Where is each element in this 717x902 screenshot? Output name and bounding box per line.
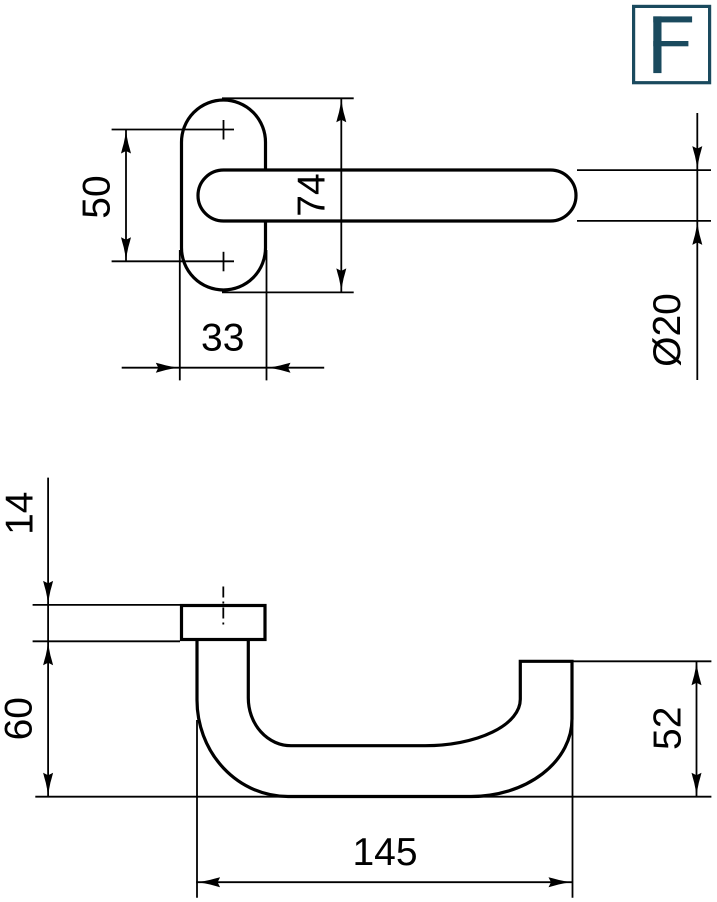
hub centerline (dash-dot) [222, 587, 224, 629]
svg-text:74: 74 [291, 173, 334, 216]
svg-text:14: 14 [0, 492, 42, 535]
center mark lower (vertical tick) [223, 252, 225, 271]
dimension line 50 [125, 130, 127, 262]
arrow 60 bottom (points down) [43, 773, 53, 797]
arrow 14/60 shared (below bar, points up) [43, 641, 53, 665]
letter F top bar [653, 16, 692, 22]
arrow diameter20 upper (above line, points down) [692, 146, 702, 170]
extension line 14 bottom [33, 640, 180, 642]
arrow 52 top (points up) [692, 661, 702, 685]
extension line 145 left [196, 720, 198, 898]
dimension line diameter 20 [696, 113, 698, 380]
arrow 52 bottom (points down) [692, 773, 702, 797]
rosette outline (oval plate) [182, 100, 266, 290]
baseline extension (grip underside) [35, 796, 711, 798]
arrow 74 bottom [336, 268, 346, 292]
extension line 52 top [572, 660, 711, 662]
lever grip outline (U-shape side view) [197, 641, 572, 797]
arrow 33 left (outside, points right) [156, 363, 180, 373]
dimension line 145 [196, 881, 572, 883]
dimension line 14/60 (left, shared) [47, 478, 49, 797]
arrow 14 upper (above line, points down) [43, 581, 53, 605]
logo box F [634, 6, 710, 82]
arrow 33 right (outside, points left) [267, 363, 291, 373]
svg-text:145: 145 [352, 831, 417, 874]
dimension line 74 [340, 98, 342, 292]
extension line 145 right [572, 720, 574, 898]
arrow 50 top [121, 130, 131, 154]
svg-text:33: 33 [201, 317, 244, 360]
svg-text:50: 50 [76, 175, 119, 218]
letter F middle bar [653, 41, 688, 46]
arrow diameter20 lower (below line, points up) [692, 221, 702, 245]
extension line 74 bottom [222, 291, 354, 293]
extension line 14 top [33, 604, 180, 606]
letter F stem [653, 16, 661, 73]
lever bar (top view, stadium shape) [198, 170, 576, 221]
extension line diameter 20 bottom [577, 220, 711, 222]
dimension line 52 [696, 661, 698, 796]
svg-text:52: 52 [646, 707, 689, 750]
extension line 50 top (through upper screw center mark) [112, 129, 234, 131]
svg-text:60: 60 [0, 697, 41, 740]
arrow 50 bottom [121, 237, 131, 261]
extension line diameter 20 top [577, 169, 711, 171]
dimension line 33 [122, 367, 325, 369]
extension line 50 bottom (through lower screw center mark) [112, 260, 234, 262]
center mark upper (vertical tick) [223, 120, 225, 140]
hub block on rosette [182, 606, 266, 640]
extension line 33 left [179, 250, 181, 380]
svg-text:Ø20: Ø20 [646, 293, 689, 367]
arrow 145 right (points right) [549, 877, 573, 887]
arrow 74 top [336, 98, 346, 122]
arrow 145 left (points left) [196, 877, 220, 887]
extension line 74 top [222, 97, 354, 99]
extension line 33 right [266, 250, 268, 380]
